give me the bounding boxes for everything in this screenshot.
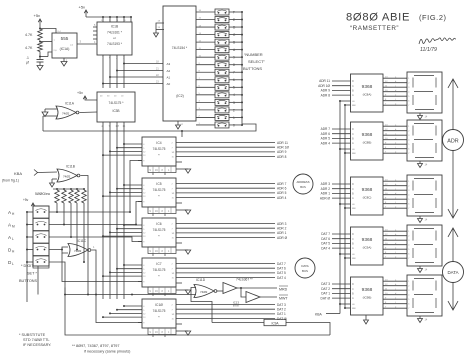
resistor RP5 500 bbox=[82, 190, 87, 203]
wire segment e (IC9A) bbox=[383, 248, 407, 250]
svg-text:ADR 1: ADR 1 bbox=[277, 231, 287, 235]
wire IC2 output to button 7 bbox=[196, 71, 215, 73]
wire ADR3 to IC8C bbox=[332, 183, 351, 185]
wire IC2 output to button E bbox=[196, 19, 215, 21]
wire segment d (IC8A) bbox=[383, 91, 407, 93]
stub IC1&#216; a bbox=[152, 335, 154, 338]
svg-text:4.7K: 4.7K bbox=[25, 46, 33, 50]
wire ADR6 to IC8B bbox=[332, 133, 351, 135]
ground (IC2 enables) bbox=[154, 33, 159, 37]
wire ADR0 to IC8C bbox=[332, 197, 351, 199]
junction node A2 bbox=[116, 70, 118, 72]
svg-text:ADR 7: ADR 7 bbox=[277, 182, 287, 186]
svg-text:E: E bbox=[233, 18, 235, 22]
svg-text:8Ø8Ø ABIE: 8Ø8Ø ABIE bbox=[346, 12, 410, 24]
pushbutton C bbox=[215, 32, 229, 38]
stub IC5 b bbox=[164, 214, 166, 217]
svg-text:DAT 1: DAT 1 bbox=[321, 292, 330, 296]
wire segment d (IC9A) bbox=[383, 244, 407, 246]
ground (555) bbox=[61, 62, 67, 67]
wire AM row to IC5 clock bbox=[136, 202, 142, 225]
svg-text:DAT 5: DAT 5 bbox=[321, 242, 330, 246]
wire ADR10 to IC8A bbox=[332, 85, 351, 87]
wire DH to IC11C input2 bbox=[62, 250, 68, 254]
svg-text:A0: A0 bbox=[167, 82, 171, 86]
svg-text:1Ø: 1Ø bbox=[172, 314, 175, 316]
node ADDRESS BUS bbox=[293, 174, 313, 194]
wire display ground (IC9A) bbox=[419, 266, 421, 269]
display DS (IC8A) 7-segment bbox=[407, 72, 442, 113]
svg-text:A2: A2 bbox=[167, 69, 171, 73]
stub IC6 Q4b bbox=[176, 242, 182, 244]
wire IC2 output to button 1 bbox=[196, 116, 215, 118]
wire latch enable vertical 2 bbox=[344, 105, 346, 308]
junction common D bbox=[241, 26, 243, 28]
svg-text:A: A bbox=[352, 196, 354, 200]
wire data tap IC6 pin 3 bbox=[110, 231, 142, 233]
junction node A1 bbox=[109, 76, 111, 78]
wire segment c (IC8B) bbox=[383, 134, 407, 136]
node R1 top bbox=[39, 28, 41, 30]
svg-text:9368: 9368 bbox=[362, 237, 373, 243]
wire IC11A input1 bbox=[45, 108, 57, 110]
svg-text:1Ø: 1Ø bbox=[172, 152, 175, 154]
wire strobe into IC4 bbox=[181, 131, 183, 137]
node R1/R2 bbox=[39, 41, 41, 43]
wire IC11C output down bbox=[92, 250, 97, 295]
wire button DL common bbox=[27, 261, 33, 263]
junction pullup rail 1 bbox=[56, 188, 58, 190]
IC1B left pin 1 bbox=[93, 26, 97, 28]
gate IC11A (7402) bbox=[56, 106, 76, 119]
ground (IC4) bbox=[185, 169, 191, 173]
wire DAT0 to IC9B bbox=[332, 297, 351, 299]
wire button 7 to common rail bbox=[229, 71, 242, 73]
stub IC6 b bbox=[164, 254, 166, 257]
wire IC4 clock pin bbox=[138, 160, 142, 162]
svg-text:DAT Ø: DAT Ø bbox=[321, 296, 331, 300]
wire AH row to IC4 clock bbox=[130, 161, 142, 213]
junction IC11B out / write line bbox=[87, 294, 89, 296]
wire AL row to IC6 clock bbox=[49, 237, 142, 242]
wire DAT6 to IC9A bbox=[332, 238, 351, 240]
wire pullup to button row y224.5 bbox=[63, 203, 65, 225]
junction common 6 bbox=[241, 79, 243, 81]
IC1B left pin 4 bbox=[93, 38, 97, 40]
svg-text:555: 555 bbox=[61, 36, 69, 41]
+5V arrow (counter) bbox=[84, 10, 88, 13]
svg-text:DAT 6: DAT 6 bbox=[277, 267, 286, 271]
junction pullup rail 4 bbox=[76, 188, 78, 190]
svg-text:(IC8B): (IC8B) bbox=[363, 141, 372, 145]
svg-text:ADR 2: ADR 2 bbox=[277, 227, 287, 231]
wire data tap IC4 pin 2 bbox=[117, 147, 142, 149]
wire to IC2 input A3 bbox=[124, 63, 163, 65]
wire MRD bbox=[237, 287, 277, 289]
wire data tap IC4 pin 4 bbox=[103, 154, 142, 156]
pushbutton 8 bbox=[215, 62, 229, 68]
wire IC5 clock pin bbox=[138, 201, 142, 203]
svg-text:M: M bbox=[12, 225, 15, 229]
junction common 1 bbox=[241, 116, 243, 118]
wire output DAT6 bbox=[176, 267, 275, 269]
wire output DAT3 bbox=[176, 304, 275, 306]
svg-text:D: D bbox=[352, 232, 354, 236]
svg-text:ADR 6: ADR 6 bbox=[321, 132, 331, 136]
svg-text:74LS175: 74LS175 bbox=[153, 309, 166, 313]
svg-text:KBA: KBA bbox=[14, 171, 22, 176]
svg-text:(IC2): (IC2) bbox=[176, 94, 184, 98]
svg-text:74Ø2: 74Ø2 bbox=[62, 112, 70, 116]
svg-text:74LS175: 74LS175 bbox=[153, 147, 166, 151]
svg-text:DAT 4: DAT 4 bbox=[321, 246, 330, 250]
wire IC7 clock pin bbox=[138, 281, 142, 283]
wire segment a (IC8A) bbox=[383, 77, 407, 79]
svg-text:74LS175: 74LS175 bbox=[153, 228, 166, 232]
svg-text:9368: 9368 bbox=[362, 84, 373, 90]
arrow DATA down bbox=[452, 283, 454, 311]
wire output ADR9 bbox=[176, 151, 275, 153]
wire node to 555 pin 2/6 bbox=[40, 56, 48, 58]
wire QB vertical bbox=[116, 55, 118, 88]
svg-text:B: B bbox=[233, 41, 235, 45]
wire to IC7 clock bbox=[62, 253, 142, 282]
svg-text:MWT: MWT bbox=[279, 297, 288, 301]
wire to ground bbox=[51, 179, 53, 183]
IC1B left pin 2 bbox=[93, 30, 97, 32]
svg-text:ADR 7: ADR 7 bbox=[321, 127, 331, 131]
svg-text:ADR Ø: ADR Ø bbox=[277, 236, 288, 240]
wire IC2 output to button 9 bbox=[196, 56, 215, 58]
wire button F to common rail bbox=[229, 11, 242, 13]
wire segment e (IC8A) bbox=[383, 95, 407, 97]
svg-text:1: 1 bbox=[233, 116, 235, 120]
svg-text:8: 8 bbox=[233, 63, 235, 67]
svg-text:5ØØΩ/ea: 5ØØΩ/ea bbox=[35, 192, 50, 196]
wire output ADR4 bbox=[176, 197, 275, 199]
IC3B output pin 7 bbox=[109, 122, 111, 127]
svg-text:1Ø: 1Ø bbox=[172, 233, 175, 235]
wire IC11B output down bbox=[81, 176, 89, 295]
wire pullup to button row y237 bbox=[70, 203, 72, 237]
wire segment d (IC8C) bbox=[383, 194, 407, 196]
wire output ADR1 bbox=[176, 232, 275, 234]
wire segment c (IC8A) bbox=[383, 86, 407, 88]
wire IC11A output to IC3B CLK bbox=[80, 111, 98, 114]
svg-text:B: B bbox=[352, 137, 354, 141]
wire IC2 output to button 6 bbox=[196, 79, 215, 81]
decoder-driver IC8B 9368 box bbox=[351, 122, 384, 160]
wire KB data bit3 vertical bbox=[102, 127, 104, 299]
svg-text:1Ø: 1Ø bbox=[172, 193, 175, 195]
wire +5V to R1 bbox=[39, 19, 41, 29]
+5V rail over IC1B bbox=[86, 16, 131, 18]
svg-text:A: A bbox=[352, 93, 354, 97]
decoder-driver IC8A 9368 box bbox=[351, 74, 384, 112]
capacitor C1 plate bottom bbox=[37, 61, 44, 63]
wire IC4 to ground bbox=[176, 168, 188, 170]
wire latch enable vertical 1 bbox=[339, 101, 341, 314]
svg-text:* DIGIT: * DIGIT bbox=[21, 264, 34, 268]
timer U1 555 box bbox=[52, 33, 77, 58]
wire +5V to rail bbox=[85, 10, 87, 17]
pushbutton 4 bbox=[215, 92, 229, 98]
junction common A bbox=[241, 49, 243, 51]
IC6 bottom pin row bbox=[148, 247, 176, 254]
wire IC1&#216; to ground bbox=[176, 330, 188, 332]
svg-text:DAT 1: DAT 1 bbox=[277, 312, 286, 316]
wire R1/R2 junction to 555 pin 7 bbox=[40, 41, 52, 43]
overline MWT bbox=[279, 294, 288, 296]
latch IC7 74LS175 box bbox=[142, 258, 176, 287]
wire output DAT0 bbox=[176, 318, 275, 320]
wire KBA to latch enables bbox=[326, 313, 340, 315]
wire segment b (IC9B) bbox=[383, 285, 407, 287]
node ADR indicator bbox=[443, 130, 464, 151]
wire to IC10 clock bbox=[96, 295, 142, 323]
wire into 555 bbox=[48, 52, 52, 57]
gate IC11D (7402) bbox=[194, 285, 214, 298]
junction common 4 bbox=[241, 94, 243, 96]
wire +5V to IC3B CLR bbox=[85, 96, 97, 100]
wire output ADR3 bbox=[176, 223, 275, 225]
wire output ADR8 bbox=[176, 156, 275, 158]
ground (IC2) bbox=[176, 125, 181, 129]
wire QC vertical bbox=[109, 55, 111, 88]
signature bbox=[419, 38, 456, 44]
svg-text:DAT 7: DAT 7 bbox=[277, 262, 286, 266]
wire segment f (IC8C) bbox=[383, 203, 407, 205]
ground (IC7) bbox=[185, 290, 191, 294]
latch IC3B box bbox=[97, 92, 135, 122]
IC1B left pin 3 bbox=[93, 34, 97, 36]
wire output DAT2 bbox=[176, 308, 275, 310]
svg-text:A: A bbox=[352, 246, 354, 250]
junction common F bbox=[241, 11, 243, 13]
svg-text:C: C bbox=[352, 84, 354, 88]
wire data tap IC7 pin 3 bbox=[110, 271, 142, 273]
wire IC11D out to buffer bbox=[217, 290, 224, 292]
stub IC6 a bbox=[152, 254, 154, 257]
stub IC7 Q4b bbox=[176, 282, 182, 284]
junction common 2 bbox=[241, 109, 243, 111]
ground (IC11A input) bbox=[42, 112, 48, 117]
svg-text:D: D bbox=[352, 282, 354, 286]
+5V arrow (digit buttons) bbox=[31, 203, 35, 206]
wire KB data bit0 vertical bbox=[123, 127, 125, 299]
wire DAT1 to IC9B bbox=[332, 292, 351, 294]
wire IC9A RBI pin bbox=[345, 257, 351, 259]
svg-text:RBI: RBI bbox=[352, 308, 356, 310]
wire data tap IC5 pin 3 bbox=[110, 191, 142, 193]
svg-text:RBI: RBI bbox=[352, 105, 356, 107]
svg-text:(from fig.1): (from fig.1) bbox=[2, 179, 19, 183]
wire IC2 output to button F bbox=[196, 11, 215, 13]
wire down to strobe line bbox=[42, 116, 44, 131]
svg-text:4: 4 bbox=[233, 93, 235, 97]
resistor RP4 500 bbox=[75, 190, 80, 203]
wire segment f (IC9A) bbox=[383, 253, 407, 255]
wire data tap IC6 pin 4 bbox=[103, 235, 142, 237]
ground (IC1&#216;) bbox=[185, 331, 191, 335]
wire DAT3 to IC9B bbox=[332, 283, 351, 285]
svg-text:+5v: +5v bbox=[77, 91, 83, 95]
svg-text:(IC9A): (IC9A) bbox=[363, 246, 372, 250]
wire segment e (IC8C) bbox=[383, 198, 407, 200]
wire segment a (IC9B) bbox=[383, 280, 407, 282]
svg-text:out: out bbox=[70, 44, 73, 47]
wire IC9B RBI pin bbox=[345, 307, 351, 309]
wire display ground (IC8C) bbox=[419, 216, 421, 219]
junction common 8 bbox=[241, 64, 243, 66]
wire data tap IC5 pin 2 bbox=[117, 188, 142, 190]
wire ADR7 to IC8B bbox=[332, 128, 351, 130]
pushbutton AL bbox=[33, 231, 49, 243]
svg-text:RBI: RBI bbox=[352, 208, 356, 210]
wire data tap IC5 pin 1 bbox=[124, 184, 142, 186]
svg-text:74Ø2: 74Ø2 bbox=[200, 290, 208, 294]
wire IC8B LE pin bbox=[340, 148, 351, 150]
wire data tap IC1&#216; pin 4 bbox=[103, 316, 142, 318]
decoder-driver IC8C 9368 box bbox=[351, 177, 384, 215]
svg-text:ADR 3: ADR 3 bbox=[277, 222, 287, 226]
svg-text:+5v: +5v bbox=[79, 5, 86, 10]
svg-text:B: B bbox=[352, 242, 354, 246]
wire button 3 to common rail bbox=[229, 101, 242, 103]
svg-text:BUS: BUS bbox=[302, 269, 308, 273]
junction IC11C out bbox=[95, 294, 97, 296]
wire IC9B gnd pin bbox=[365, 315, 367, 320]
pushbutton 3 bbox=[215, 99, 229, 105]
junction common E bbox=[241, 19, 243, 21]
wire KB data bit2 vertical bbox=[109, 127, 111, 299]
wire IC1&#216; clock pin bbox=[138, 322, 142, 324]
svg-text:IC11A: IC11A bbox=[65, 101, 75, 105]
svg-text:ADR 8: ADR 8 bbox=[277, 155, 287, 159]
wire bottom ground run bbox=[65, 288, 330, 336]
svg-text:ADR 11: ADR 11 bbox=[319, 79, 330, 83]
wire output ADR2 bbox=[176, 227, 275, 229]
wire C1 to ground bbox=[39, 62, 41, 66]
wire segment b (IC8C) bbox=[383, 185, 407, 187]
svg-text:74LS161 *: 74LS161 * bbox=[107, 31, 123, 35]
decoder-driver IC9A 9368 box bbox=[351, 227, 384, 265]
stub IC7 b bbox=[164, 294, 166, 297]
wire button C to common rail bbox=[229, 34, 242, 36]
decoder IC2 74LS154 box bbox=[163, 6, 196, 121]
svg-text:+5v: +5v bbox=[34, 13, 41, 18]
wire DAT5 to IC9A bbox=[332, 242, 351, 244]
wire pullup to button row y212 bbox=[56, 203, 58, 212]
svg-text:ADR 11: ADR 11 bbox=[277, 141, 288, 145]
svg-text:C: C bbox=[352, 237, 354, 241]
svg-text:DAT 4: DAT 4 bbox=[277, 276, 286, 280]
svg-text:IC7: IC7 bbox=[156, 262, 161, 266]
wire to IC11D input1 bbox=[191, 288, 212, 323]
svg-text:D: D bbox=[352, 79, 354, 83]
resistor RP1 500 bbox=[55, 190, 60, 203]
wire display ground (IC8B) bbox=[419, 161, 421, 164]
svg-text:ADR 9: ADR 9 bbox=[277, 150, 287, 154]
svg-text:IC3B: IC3B bbox=[112, 109, 119, 113]
svg-text:A3: A3 bbox=[167, 62, 171, 66]
arrow DATA up bbox=[452, 228, 454, 262]
junction node A3 bbox=[123, 63, 125, 65]
svg-text:A: A bbox=[352, 141, 354, 145]
svg-text:DAT 5: DAT 5 bbox=[277, 271, 286, 275]
junction +5V rail x117 bbox=[116, 16, 118, 18]
svg-text:+5v: +5v bbox=[23, 198, 29, 202]
wire ADR1 to IC8C bbox=[332, 192, 351, 194]
wire IC2 enable loop bbox=[156, 23, 164, 33]
svg-text:ADR 4: ADR 4 bbox=[321, 141, 331, 145]
wire rail to IC1B pin x117 bbox=[116, 17, 118, 22]
wire IC8B RBI pin bbox=[345, 152, 351, 154]
wire rail to IC1B pin x103 bbox=[102, 17, 104, 22]
svg-text:9368: 9368 bbox=[362, 132, 373, 138]
svg-text:9: 9 bbox=[233, 56, 235, 60]
wire data tap IC7 pin 1 bbox=[124, 264, 142, 266]
junction +5V rail x131 bbox=[130, 16, 132, 18]
svg-text:“NUMBER: “NUMBER bbox=[244, 52, 263, 57]
svg-text:ADR 3: ADR 3 bbox=[321, 182, 331, 186]
KBA connector chevron bbox=[34, 170, 38, 176]
wire button 2 to common rail bbox=[229, 109, 242, 111]
wire to IC2 input A1 bbox=[110, 76, 163, 78]
gate IC11B (7402) bbox=[57, 169, 77, 182]
wire DL row down bbox=[49, 262, 65, 295]
resistor R1 4.7K bbox=[38, 29, 43, 40]
junction common AL bbox=[26, 236, 28, 238]
svg-text:L: L bbox=[12, 237, 14, 241]
wire to IC11D input2 bbox=[65, 294, 196, 296]
wire segment g (IC9B) bbox=[383, 307, 407, 309]
stub IC5 Q4b bbox=[176, 202, 182, 204]
wire to IC9A bbox=[286, 323, 330, 336]
svg-text:SET *: SET * bbox=[27, 272, 37, 276]
ground (IC11B input) bbox=[50, 183, 55, 187]
svg-text:1Ø: 1Ø bbox=[172, 273, 175, 275]
svg-text:BUTTONS: BUTTONS bbox=[19, 279, 38, 283]
svg-text:IC6: IC6 bbox=[156, 222, 161, 226]
svg-text:11/1/79: 11/1/79 bbox=[420, 47, 437, 53]
wire button AL common bbox=[27, 236, 33, 238]
display DS (IC8B) 7-segment bbox=[407, 120, 442, 161]
wire segment a (IC8B) bbox=[383, 125, 407, 127]
wire 555 output to IC1B bbox=[77, 43, 97, 45]
wire ADR4 to IC8B bbox=[332, 142, 351, 144]
wire data tap IC4 pin 3 bbox=[110, 150, 142, 152]
stub IC4 a bbox=[152, 173, 154, 176]
pushbutton 9 bbox=[215, 54, 229, 60]
wire data tap IC4 pin 1 bbox=[124, 143, 142, 145]
svg-text:B: B bbox=[352, 192, 354, 196]
junction common AM bbox=[26, 224, 28, 226]
latch IC6 74LS175 box bbox=[142, 218, 176, 247]
wire output ADR11 bbox=[176, 142, 275, 144]
wire IC11A input2 bbox=[43, 115, 57, 117]
wire segment e (IC8B) bbox=[383, 143, 407, 145]
wire QD vertical bbox=[102, 55, 104, 88]
ground (display IC9A) bbox=[418, 269, 423, 273]
wire to capacitor C1 bbox=[39, 57, 41, 60]
junction common 7 bbox=[241, 71, 243, 73]
stub IC1&#216; Q4b bbox=[176, 323, 182, 325]
wire segment d (IC9B) bbox=[383, 294, 407, 296]
svg-text:ADR 6: ADR 6 bbox=[277, 187, 287, 191]
pushbutton AM bbox=[33, 219, 49, 231]
ground (display IC8B) bbox=[418, 164, 423, 168]
